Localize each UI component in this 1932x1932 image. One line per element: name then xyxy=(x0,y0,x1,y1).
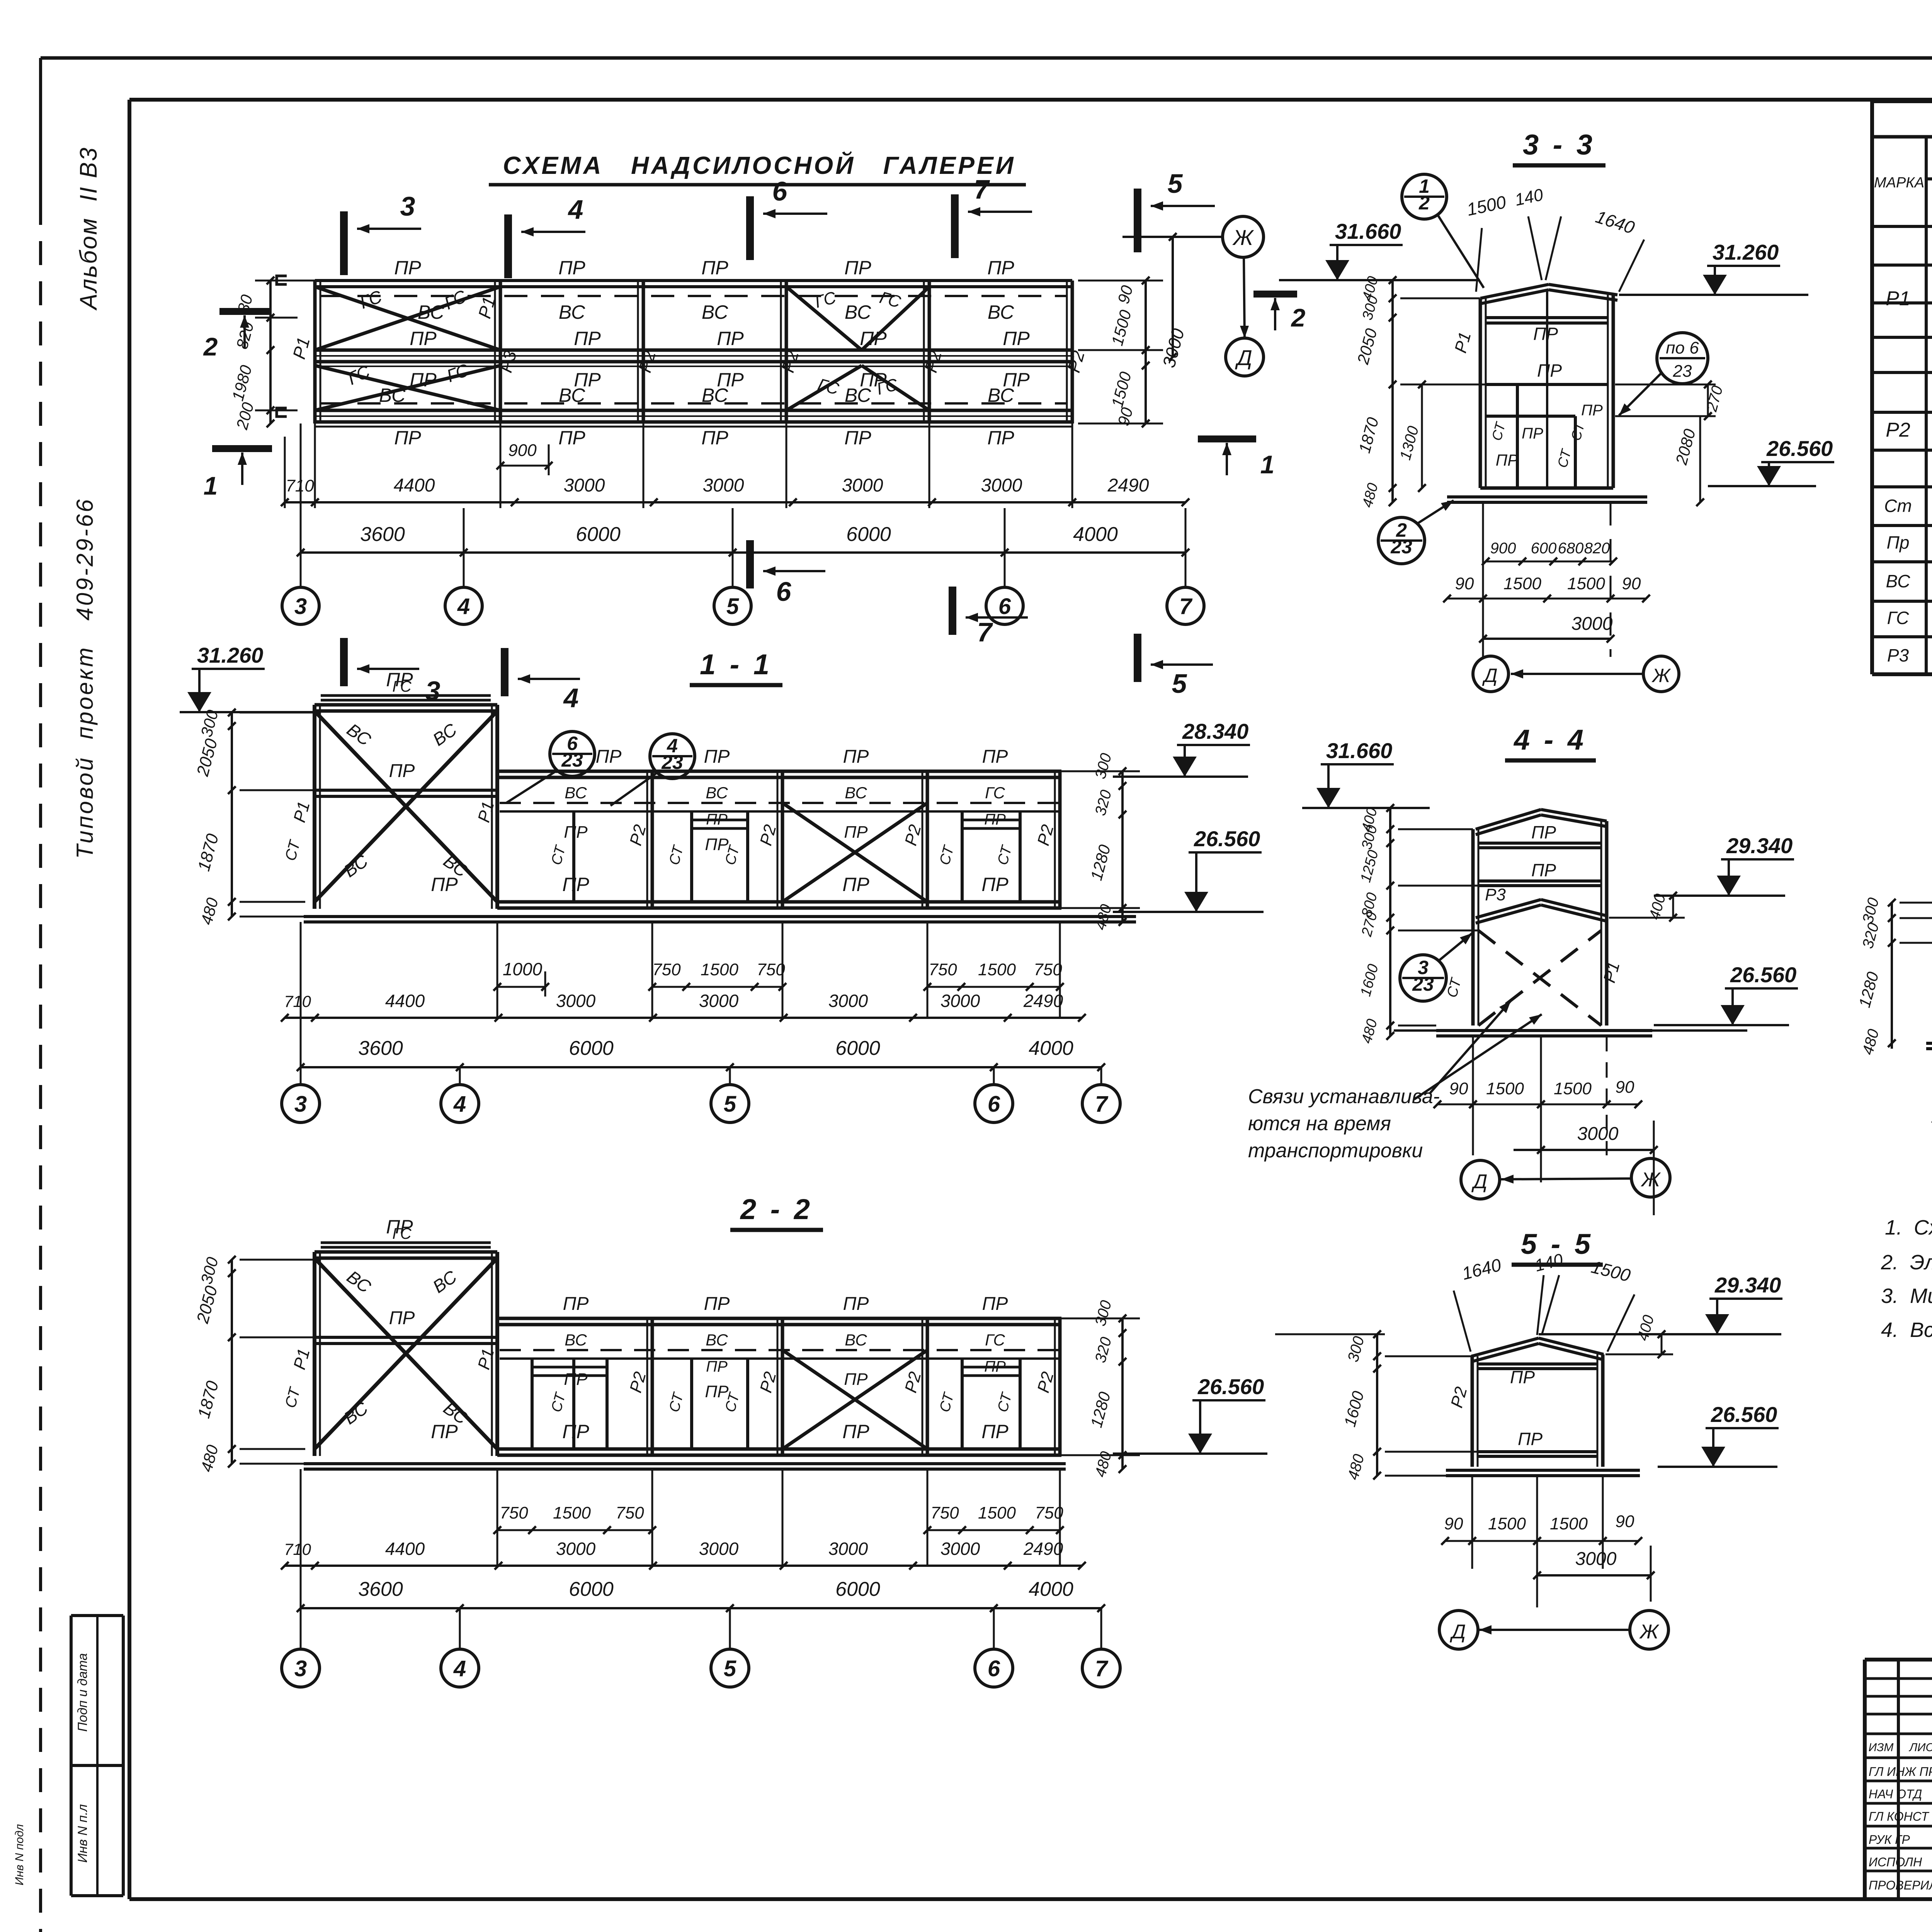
section 2 - 2 tall bay top chord xyxy=(315,1250,497,1254)
svg-text:ПР: ПР xyxy=(394,257,421,279)
section 5-5 roof xyxy=(1471,1338,1539,1356)
svg-text:ИСПОЛН: ИСПОЛН xyxy=(1869,1855,1922,1869)
svg-text:ГЛ КОНСТ: ГЛ КОНСТ xyxy=(1869,1810,1930,1823)
svg-text:ПР: ПР xyxy=(982,1294,1008,1314)
svg-text:ПР: ПР xyxy=(843,747,869,767)
svg-text:6000: 6000 xyxy=(569,1578,614,1600)
svg-text:ИЗМ: ИЗМ xyxy=(1869,1741,1894,1754)
svg-text:ВС: ВС xyxy=(845,301,871,323)
svg-text:1500: 1500 xyxy=(978,1503,1016,1522)
svg-text:ПР: ПР xyxy=(574,328,601,349)
svg-text:6: 6 xyxy=(998,594,1011,619)
svg-text:4000: 4000 xyxy=(1029,1578,1073,1600)
section 1 - 1 tall bay verticals R1 xyxy=(313,705,316,909)
svg-text:90: 90 xyxy=(1444,1514,1463,1533)
table vertical lines xyxy=(1925,137,1928,674)
svg-text:3000: 3000 xyxy=(981,475,1022,496)
svg-text:ПР: ПР xyxy=(410,328,437,349)
svg-text:ПР: ПР xyxy=(596,747,622,767)
svg-text:ПР: ПР xyxy=(982,747,1008,767)
svg-text:ВС: ВС xyxy=(706,784,728,802)
svg-text:СХЕМА НАДСИЛОСНОЙ ГАЛЕРЕИ: СХЕМА НАДСИЛОСНОЙ ГАЛЕРЕИ xyxy=(503,151,1015,179)
section 3-3 right dims xyxy=(1707,384,1709,416)
svg-text:ВС: ВС xyxy=(988,301,1014,323)
svg-text:ПР: ПР xyxy=(844,427,871,449)
svg-text:ПР: ПР xyxy=(704,747,730,767)
section 2 - 2 ST verticals xyxy=(572,1359,575,1449)
section 1 - 1 band BC dashed xyxy=(500,802,1059,804)
plan bottom chord xyxy=(315,409,1072,412)
section 1 - 1 top beam above tall bay xyxy=(321,694,491,697)
svg-text:ВС: ВС xyxy=(559,301,585,323)
svg-text:1500: 1500 xyxy=(1554,1079,1592,1098)
section 4-4 bottom dims xyxy=(1437,1104,1638,1105)
section 1 - 1 ST verticals xyxy=(572,811,575,902)
svg-text:1500: 1500 xyxy=(1486,1079,1524,1098)
svg-text:ВС: ВС xyxy=(845,1331,867,1349)
svg-text:ПР: ПР xyxy=(987,427,1014,449)
section 2 - 2 tall bay verticals R1 xyxy=(313,1252,316,1456)
section 1 - 1 right dim column xyxy=(1121,771,1124,922)
svg-text:2: 2 xyxy=(1418,192,1430,214)
section 2 - 2 band BC dashed xyxy=(500,1349,1059,1351)
svg-text:680: 680 xyxy=(1558,540,1584,557)
svg-text:31.660: 31.660 xyxy=(1326,738,1392,763)
svg-text:750: 750 xyxy=(616,1503,644,1522)
section 2 - 2 right dim column xyxy=(1121,1318,1124,1469)
svg-text:ПР: ПР xyxy=(558,427,585,449)
svg-text:Ж: Ж xyxy=(1640,1168,1661,1191)
svg-text:ПР: ПР xyxy=(844,257,871,279)
svg-text:3000: 3000 xyxy=(1577,1124,1619,1144)
svg-text:ГС: ГС xyxy=(392,1225,412,1242)
svg-text:ПР: ПР xyxy=(706,811,728,828)
svg-text:750: 750 xyxy=(930,1503,959,1522)
svg-text:3000: 3000 xyxy=(703,475,744,496)
svg-text:6000: 6000 xyxy=(835,1578,880,1600)
svg-text:28.340: 28.340 xyxy=(1182,719,1248,743)
svg-text:ПР: ПР xyxy=(1537,361,1562,381)
plan dim row 1 xyxy=(285,501,1185,503)
svg-text:31.660: 31.660 xyxy=(1335,219,1401,243)
section 1 - 1 base line xyxy=(304,915,1136,918)
section 1 - 1 band top chord xyxy=(497,770,1061,773)
section 5-5 base xyxy=(1446,1469,1640,1472)
svg-text:Ж: Ж xyxy=(1232,225,1254,250)
svg-text:90: 90 xyxy=(1616,1078,1634,1097)
svg-text:ПР: ПР xyxy=(1518,1429,1543,1449)
svg-text:750: 750 xyxy=(1034,960,1062,979)
svg-text:23: 23 xyxy=(661,752,683,773)
svg-text:ПР: ПР xyxy=(1003,328,1030,349)
svg-text:26.560: 26.560 xyxy=(1711,1402,1777,1427)
svg-text:ВС: ВС xyxy=(845,784,867,802)
section 2 - 2 tall bay mid girder xyxy=(315,1336,497,1339)
section 3-3 mid beam PR xyxy=(1486,383,1608,386)
section 3-3 top beam PR xyxy=(1486,316,1608,319)
svg-text:ВС: ВС xyxy=(988,384,1014,406)
title block rows left part xyxy=(1865,1677,1932,1680)
title block vertical lines left part xyxy=(1897,1660,1900,1899)
plan extension lines xyxy=(314,423,316,508)
svg-text:3: 3 xyxy=(400,191,415,221)
svg-text:ПР: ПР xyxy=(558,257,585,279)
section 1 - 1 bay4 X brace xyxy=(782,803,927,902)
plan top chord xyxy=(315,279,1072,282)
svg-text:ПР: ПР xyxy=(984,811,1006,828)
svg-text:6000: 6000 xyxy=(835,1037,880,1060)
section 1 - 1 tall bay top chord xyxy=(315,703,497,707)
svg-text:3. Минимальные сварные швы: 3. Минимальные сварные швы принимать по … xyxy=(1881,1284,1932,1308)
svg-text:МАРКА: МАРКА xyxy=(1874,175,1924,191)
section 3-3 inner verticals xyxy=(1516,384,1519,488)
section 1 - 1 band thin PR line xyxy=(500,810,1059,813)
svg-text:3000: 3000 xyxy=(842,475,883,496)
svg-text:2 - 2: 2 - 2 xyxy=(740,1193,813,1225)
svg-text:Д: Д xyxy=(1235,345,1252,370)
svg-text:Р3: Р3 xyxy=(1485,885,1506,904)
section 3-3 base xyxy=(1447,495,1647,498)
svg-text:ПР: ПР xyxy=(564,1370,588,1389)
section 5-5 columns xyxy=(1471,1356,1474,1467)
title block frame xyxy=(1865,1658,1932,1662)
svg-text:ПР: ПР xyxy=(981,1421,1009,1442)
svg-text:3 - 3: 3 - 3 xyxy=(1523,129,1595,161)
section 1 - 1 band bottom chord xyxy=(497,900,1061,904)
svg-text:90: 90 xyxy=(1455,574,1474,593)
svg-text:31.260: 31.260 xyxy=(1713,240,1779,264)
svg-text:ПР: ПР xyxy=(981,874,1009,895)
svg-text:ПР: ПР xyxy=(706,1358,728,1375)
svg-text:90: 90 xyxy=(1622,574,1641,593)
plan left channel caps xyxy=(277,276,287,284)
section 2 - 2 band thin PR line xyxy=(500,1357,1059,1360)
svg-text:ПР: ПР xyxy=(389,1308,415,1328)
svg-text:1: 1 xyxy=(1260,450,1275,479)
svg-text:ГС: ГС xyxy=(1887,608,1909,628)
svg-text:4: 4 xyxy=(457,594,470,619)
section 2 - 2 top beam above tall bay xyxy=(321,1242,491,1244)
svg-text:29.340: 29.340 xyxy=(1714,1273,1781,1297)
section 5-5 axis circles xyxy=(1439,1611,1478,1649)
section 3-3 callout 1/2 xyxy=(1402,174,1447,219)
svg-text:ГЛ ИНЖ ПР: ГЛ ИНЖ ПР xyxy=(1869,1765,1932,1779)
svg-text:1500: 1500 xyxy=(978,960,1016,979)
svg-text:Р2: Р2 xyxy=(1886,419,1910,441)
svg-text:ПРОВЕРИЛ: ПРОВЕРИЛ xyxy=(1869,1878,1932,1892)
svg-text:29.340: 29.340 xyxy=(1726,833,1793,858)
svg-text:Инв N п.л: Инв N п.л xyxy=(75,1804,90,1863)
svg-text:23: 23 xyxy=(1673,362,1692,381)
svg-text:1: 1 xyxy=(204,471,218,500)
svg-text:23: 23 xyxy=(1412,973,1434,995)
svg-text:ПР: ПР xyxy=(1531,860,1556,880)
svg-text:3000: 3000 xyxy=(1571,614,1613,634)
svg-text:3600: 3600 xyxy=(358,1037,403,1060)
svg-text:3000: 3000 xyxy=(699,1539,739,1559)
section 3-3 roof xyxy=(1480,284,1549,298)
svg-text:ПР: ПР xyxy=(1496,451,1518,469)
section 5-5 left dims xyxy=(1376,1334,1378,1476)
plan X brace bay1 bottom xyxy=(315,366,500,410)
section 2 - 2 bay4 X brace xyxy=(782,1350,927,1449)
svg-text:5: 5 xyxy=(1172,668,1187,699)
bottom-left stamp boxes xyxy=(71,1614,123,1617)
svg-text:ПР: ПР xyxy=(844,1370,868,1389)
svg-text:4: 4 xyxy=(453,1092,466,1117)
svg-text:7: 7 xyxy=(974,174,990,204)
section 4-4 roof xyxy=(1476,810,1541,829)
svg-text:Ж: Ж xyxy=(1639,1621,1660,1643)
svg-text:3: 3 xyxy=(294,594,307,619)
svg-text:6000: 6000 xyxy=(569,1037,614,1060)
svg-text:750: 750 xyxy=(929,960,957,979)
section 1 - 1 tall bay mid girder xyxy=(315,789,497,792)
svg-text:ПР: ПР xyxy=(842,874,869,895)
svg-text:6: 6 xyxy=(988,1656,1000,1681)
section 1 - 1 tall bay X brace xyxy=(315,711,497,902)
svg-text:ВС: ВС xyxy=(418,301,444,323)
svg-text:1500: 1500 xyxy=(1503,574,1541,593)
svg-text:ются на время: ются на время xyxy=(1248,1112,1391,1135)
svg-text:4400: 4400 xyxy=(394,475,435,496)
svg-text:4: 4 xyxy=(453,1656,466,1681)
section 4-4 axis circles xyxy=(1461,1160,1500,1199)
svg-text:90: 90 xyxy=(1616,1512,1634,1531)
svg-text:ВС: ВС xyxy=(559,384,585,406)
section 3-3 left dims xyxy=(1391,280,1394,502)
svg-text:4. Все болты М16 класса 4: 4. Все болты М16 класса 48 , кроме огово… xyxy=(1881,1318,1932,1342)
svg-text:ПР: ПР xyxy=(984,1358,1006,1375)
svg-text:Пр: Пр xyxy=(1887,532,1910,553)
svg-text:Д: Д xyxy=(1471,1170,1488,1193)
svg-text:ПР: ПР xyxy=(563,1294,589,1314)
svg-text:6: 6 xyxy=(776,577,792,607)
svg-text:7: 7 xyxy=(1095,1092,1109,1117)
svg-text:4400: 4400 xyxy=(385,1539,425,1559)
svg-text:ВС: ВС xyxy=(702,384,728,406)
svg-text:ПР: ПР xyxy=(987,257,1014,279)
svg-text:5: 5 xyxy=(1168,168,1183,199)
svg-text:4000: 4000 xyxy=(1073,523,1118,546)
svg-text:Д: Д xyxy=(1482,665,1497,686)
section 4-4 left dims xyxy=(1389,808,1391,1036)
svg-text:1500: 1500 xyxy=(701,960,738,979)
section 6-6 base xyxy=(1926,1042,1932,1045)
svg-text:ПР: ПР xyxy=(394,427,421,449)
svg-text:ПР: ПР xyxy=(562,1421,589,1442)
svg-text:6000: 6000 xyxy=(846,523,891,546)
svg-text:по 6: по 6 xyxy=(1666,338,1699,357)
svg-text:ГС: ГС xyxy=(985,1331,1005,1349)
svg-text:ПР: ПР xyxy=(842,1421,869,1442)
svg-text:1500: 1500 xyxy=(1550,1514,1588,1533)
svg-text:Ж: Ж xyxy=(1651,665,1671,686)
svg-text:6: 6 xyxy=(988,1092,1000,1117)
svg-text:ГС: ГС xyxy=(985,784,1005,802)
svg-text:3600: 3600 xyxy=(358,1578,403,1600)
svg-text:ВС: ВС xyxy=(1886,571,1911,591)
plan verticals xyxy=(313,281,317,423)
plan brace bay4 bottom xyxy=(786,366,862,410)
svg-text:750: 750 xyxy=(652,960,681,979)
svg-text:ПР: ПР xyxy=(389,761,415,781)
plan section cut mark 1 left xyxy=(212,445,272,452)
svg-text:3000: 3000 xyxy=(828,1539,868,1559)
svg-text:ВС: ВС xyxy=(702,301,728,323)
svg-text:600: 600 xyxy=(1531,540,1557,557)
section 1 - 1 main dim rows xyxy=(285,1017,1082,1019)
svg-text:4: 4 xyxy=(568,194,583,224)
svg-text:ПР: ПР xyxy=(564,823,588,842)
section 2 - 2 base line xyxy=(304,1462,1066,1465)
svg-text:6: 6 xyxy=(772,176,788,206)
section 3-3 callout po6/23 xyxy=(1657,333,1708,384)
section 1 - 1 band verticals R2 xyxy=(651,771,654,908)
plan mid girder xyxy=(315,349,1072,352)
svg-text:4: 4 xyxy=(563,683,579,713)
svg-text:710: 710 xyxy=(284,992,311,1010)
section 4-4 dim 3000 xyxy=(1514,1149,1654,1151)
svg-text:1500: 1500 xyxy=(1488,1514,1526,1533)
svg-text:3: 3 xyxy=(294,1656,307,1681)
section 5-5 dim 3000 xyxy=(1537,1574,1651,1577)
svg-text:2490: 2490 xyxy=(1023,1539,1063,1559)
svg-text:3600: 3600 xyxy=(360,523,405,546)
section 2 - 2 band bottom chord xyxy=(497,1447,1061,1451)
svg-text:750: 750 xyxy=(757,960,785,979)
svg-text:Подп и дата: Подп и дата xyxy=(75,1653,90,1731)
plan bottom section markers xyxy=(340,638,348,686)
svg-text:23: 23 xyxy=(561,749,583,771)
svg-text:26.560: 26.560 xyxy=(1766,436,1833,461)
section 4-4 base xyxy=(1436,1029,1652,1032)
svg-text:900: 900 xyxy=(1490,540,1516,557)
svg-text:3000: 3000 xyxy=(828,991,868,1011)
svg-text:26.560: 26.560 xyxy=(1730,963,1796,987)
svg-text:ВС: ВС xyxy=(845,384,871,406)
svg-text:Связи устанавлива-: Связи устанавлива- xyxy=(1248,1085,1440,1108)
section 2 - 2 band verticals R2 xyxy=(651,1318,654,1455)
svg-text:3000: 3000 xyxy=(940,991,980,1011)
svg-text:ПР: ПР xyxy=(701,257,728,279)
section 2 - 2 left dim column xyxy=(231,1260,233,1464)
table horizontal lines xyxy=(1872,135,1932,139)
section 4-4 dashed X brace xyxy=(1478,930,1601,1026)
svg-text:РУК ГР: РУК ГР xyxy=(1869,1833,1910,1847)
svg-text:ПР: ПР xyxy=(717,328,744,349)
svg-text:2: 2 xyxy=(203,332,218,361)
outer page border xyxy=(41,56,1932,60)
svg-text:ПР: ПР xyxy=(1522,425,1543,442)
svg-text:1 - 1: 1 - 1 xyxy=(700,648,772,680)
plan right dim column xyxy=(1145,281,1147,423)
section 6-6 left dims xyxy=(1891,903,1893,1049)
svg-text:3: 3 xyxy=(294,1092,307,1117)
svg-text:3000: 3000 xyxy=(556,991,596,1011)
svg-text:7: 7 xyxy=(1179,594,1193,619)
plan grid circles xyxy=(282,587,319,624)
svg-text:2: 2 xyxy=(1291,303,1306,332)
svg-text:1. Схему склада цемента см: 1. Схему склада цемента смотреть на лист… xyxy=(1885,1216,1932,1239)
svg-text:7: 7 xyxy=(977,617,993,647)
svg-text:Р1: Р1 xyxy=(1886,287,1910,310)
svg-text:3000: 3000 xyxy=(940,1539,980,1559)
section 4-4 columns xyxy=(1471,829,1475,1026)
svg-text:31.260: 31.260 xyxy=(197,643,263,667)
section 3-3 bottom dims xyxy=(1486,561,1613,563)
plan top BC dashed xyxy=(321,295,1066,297)
svg-text:ПР: ПР xyxy=(1531,822,1556,842)
section 2 - 2 band top chord xyxy=(497,1317,1061,1320)
svg-text:5: 5 xyxy=(724,1656,736,1681)
svg-text:Ст: Ст xyxy=(1884,496,1912,516)
section 4-4 beams PR xyxy=(1478,842,1601,845)
plan dim row 2 xyxy=(301,551,1185,554)
section 3-3 bottom chord xyxy=(1480,486,1613,490)
svg-text:820: 820 xyxy=(1584,540,1610,557)
svg-text:6000: 6000 xyxy=(576,523,621,546)
svg-text:2490: 2490 xyxy=(1107,475,1149,496)
svg-text:ПР: ПР xyxy=(844,823,868,842)
svg-text:ПР: ПР xyxy=(843,1294,869,1314)
section 3-3 lower beams xyxy=(1486,415,1575,418)
section 4-4 lower gable R3 xyxy=(1476,900,1541,918)
svg-text:Типовой проект 409-29-66: Типовой проект 409-29-66 xyxy=(72,497,98,859)
svg-text:900: 900 xyxy=(508,441,537,460)
section 3-3 axis circles xyxy=(1473,656,1509,692)
table frame xyxy=(1872,99,1932,103)
section 5-5 beams xyxy=(1478,1362,1597,1366)
svg-text:ЛИСТ: ЛИСТ xyxy=(1908,1741,1932,1754)
svg-text:ВС: ВС xyxy=(379,384,406,406)
svg-text:ПР: ПР xyxy=(1533,324,1558,344)
svg-text:2490: 2490 xyxy=(1023,991,1063,1011)
svg-text:ПР: ПР xyxy=(704,1294,730,1314)
svg-text:4000: 4000 xyxy=(1029,1037,1073,1060)
inner frame xyxy=(129,98,1932,102)
plan bottom BC dashed xyxy=(321,402,1066,405)
section 3-3 callout 2/23 xyxy=(1378,517,1425,564)
svg-text:Р3: Р3 xyxy=(1887,645,1909,665)
svg-text:ПР: ПР xyxy=(562,874,589,895)
svg-text:1000: 1000 xyxy=(503,959,543,979)
section 5-5 bottom dims xyxy=(1445,1540,1638,1542)
section 2 - 2 main dim rows xyxy=(285,1565,1082,1567)
section 1 - 1 callout circles xyxy=(550,731,595,776)
section 2 - 2 grid circles xyxy=(282,1649,320,1687)
section 1 - 1 left dim column xyxy=(231,713,233,917)
svg-text:2. Элементы с неоговоренными: 2. Элементы с неоговоренными усилиями кр… xyxy=(1881,1251,1932,1274)
svg-text:26.560: 26.560 xyxy=(1197,1374,1264,1399)
svg-text:Инв N подл: Инв N подл xyxy=(13,1824,26,1886)
svg-text:5: 5 xyxy=(726,594,739,619)
svg-text:транспортировки: транспортировки xyxy=(1248,1139,1423,1162)
svg-text:3000: 3000 xyxy=(699,991,739,1011)
plan left dim column xyxy=(269,281,272,423)
plan brace bay4 top xyxy=(786,287,862,350)
svg-text:710: 710 xyxy=(284,1540,311,1558)
plan axis circles ZH D xyxy=(1122,236,1223,238)
svg-text:1500: 1500 xyxy=(553,1503,591,1522)
svg-text:4 - 4: 4 - 4 xyxy=(1513,724,1587,756)
svg-text:Альбом II В3: Альбом II В3 xyxy=(75,146,102,311)
svg-text:3000: 3000 xyxy=(1575,1549,1617,1569)
section 2 - 2 tall bay X brace xyxy=(315,1258,497,1449)
svg-text:5: 5 xyxy=(724,1092,736,1117)
svg-text:ПР: ПР xyxy=(1510,1367,1535,1387)
section 3-3 columns xyxy=(1479,298,1482,488)
